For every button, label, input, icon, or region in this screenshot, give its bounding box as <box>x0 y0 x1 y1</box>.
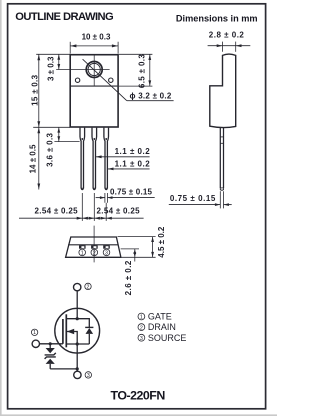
bottom view trapezoid <box>66 237 121 257</box>
pin stub 3 <box>103 245 110 248</box>
legend pin 2 drain <box>138 322 176 332</box>
source tap wire <box>66 343 89 345</box>
wire drain <box>76 291 78 319</box>
svg-text:14 ± 0.5: 14 ± 0.5 <box>28 144 37 173</box>
label pin 3 <box>85 372 91 379</box>
svg-text:3 ± 0.3: 3 ± 0.3 <box>47 56 56 81</box>
dim 2.8±0.2 side <box>208 31 251 52</box>
pin stub 2 <box>91 245 98 248</box>
bottom page-edge shading <box>0 414 277 416</box>
pin number 3 bottom view <box>103 249 110 256</box>
label pin 1 <box>31 329 37 336</box>
svg-text:6.5 ± 0.3: 6.5 ± 0.3 <box>138 54 147 88</box>
body diode D1 <box>85 327 93 344</box>
side lead ticks <box>220 136 223 138</box>
dim 15±0.3 <box>36 54 70 127</box>
dim 4.5±0.2 <box>118 226 166 258</box>
hole horizontal centerline <box>56 69 109 71</box>
side lead left line <box>219 128 221 189</box>
svg-text:2: 2 <box>140 325 143 331</box>
dim 0.75±0.15 side <box>169 191 232 208</box>
front view body outline <box>70 55 118 127</box>
gate bar <box>62 319 64 344</box>
svg-text:1: 1 <box>33 330 36 336</box>
mosfet circle U1 <box>55 308 100 353</box>
drain tap wire <box>66 319 89 327</box>
wire gate <box>40 343 63 345</box>
border frame <box>8 4 266 409</box>
svg-text:2.6 ± 0.2: 2.6 ± 0.2 <box>124 260 133 295</box>
lead 3 front <box>104 128 109 190</box>
svg-text:2.54 ± 0.25: 2.54 ± 0.25 <box>35 207 79 216</box>
svg-text:10 ± 0.3: 10 ± 0.3 <box>82 33 111 42</box>
dim 0.75±0.15 front <box>96 193 155 203</box>
svg-text:4.5 ± 0.2: 4.5 ± 0.2 <box>157 226 166 258</box>
svg-text:1.1 ± 0.2: 1.1 ± 0.2 <box>115 147 151 156</box>
tab separation line <box>71 85 118 87</box>
svg-text:1: 1 <box>81 250 84 256</box>
svg-text:GATE: GATE <box>148 312 172 322</box>
hole vertical centerline <box>93 55 95 86</box>
dim 10±0.3 <box>70 42 118 54</box>
dim 6.5±0.3 <box>119 54 152 86</box>
legend pin 3 source <box>138 333 186 343</box>
side lead tip <box>220 188 223 190</box>
dim 14±0.5 <box>33 127 70 189</box>
leader 1.1±0.2 upper <box>96 155 150 158</box>
dim 3±0.3 <box>57 54 60 69</box>
dim 3.6±0.3 <box>54 127 79 141</box>
channel bar <box>65 314 67 347</box>
svg-text:1: 1 <box>140 315 143 321</box>
side view profile <box>210 54 236 128</box>
terminal 1 gate <box>32 340 39 347</box>
pin stub 1 <box>79 245 86 248</box>
bottom view centerline <box>93 226 95 263</box>
legend pin 1 gate <box>138 312 172 322</box>
svg-text:0.75 ± 0.15: 0.75 ± 0.15 <box>110 188 153 197</box>
bottom view tab band line <box>68 244 118 246</box>
svg-text:ϕ 3.2 ± 0.2: ϕ 3.2 ± 0.2 <box>130 92 172 101</box>
source arrow tap <box>66 329 77 344</box>
small circle right <box>109 78 113 82</box>
svg-text:3: 3 <box>87 373 90 379</box>
svg-text:OUTLINE DRAWING: OUTLINE DRAWING <box>15 11 114 23</box>
svg-text:DRAIN: DRAIN <box>148 322 176 332</box>
side lead right line <box>223 128 225 189</box>
svg-text:3.6 ± 0.3: 3.6 ± 0.3 <box>46 132 55 166</box>
junction dot source-zener <box>76 367 79 370</box>
left page-edge shading <box>0 0 2 416</box>
mounting hole outer <box>86 62 102 78</box>
svg-text:SOURCE: SOURCE <box>148 333 187 343</box>
leader phi 3.2±0.2 <box>83 59 174 100</box>
svg-text:3: 3 <box>140 336 143 342</box>
svg-text:TO-220FN: TO-220FN <box>111 388 166 402</box>
zener diode ZD1 <box>45 344 56 369</box>
wire zener return <box>50 368 77 370</box>
small circle left <box>75 78 79 82</box>
junction dot gate-zener <box>49 342 52 345</box>
lead 1 front <box>80 128 85 190</box>
junction dot source tap <box>76 342 79 345</box>
terminal 2 drain <box>74 283 81 290</box>
leader 1.1±0.2 lower <box>108 168 150 171</box>
svg-text:2: 2 <box>87 284 90 290</box>
svg-text:2.54 ± 0.25: 2.54 ± 0.25 <box>97 207 141 216</box>
mounting hole inner <box>88 63 100 75</box>
svg-text:0.75 ± 0.15: 0.75 ± 0.15 <box>170 194 216 203</box>
svg-text:2.8 ± 0.2: 2.8 ± 0.2 <box>209 31 245 40</box>
junction dot drain tap <box>76 317 79 320</box>
dim 2.6±0.2 <box>121 249 139 295</box>
svg-text:3: 3 <box>105 250 108 256</box>
wire source <box>76 344 78 371</box>
terminal 3 source <box>74 371 81 378</box>
svg-text:2: 2 <box>93 250 96 256</box>
svg-text:1.1 ± 0.2: 1.1 ± 0.2 <box>115 160 151 169</box>
svg-text:Dimensions in mm: Dimensions in mm <box>176 14 258 24</box>
label pin 2 <box>85 283 91 290</box>
dim 2.54 extensions <box>19 193 144 221</box>
pin number 1 bottom view <box>79 249 86 256</box>
pin number 2 bottom view <box>91 249 98 256</box>
svg-text:15 ± 0.3: 15 ± 0.3 <box>30 74 39 106</box>
lead 2 front <box>92 128 97 190</box>
